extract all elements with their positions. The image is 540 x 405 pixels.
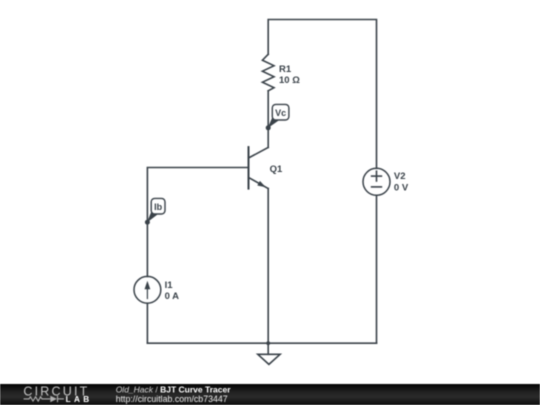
wire left rail <box>147 168 248 277</box>
svg-text:Q1: Q1 <box>270 164 283 175</box>
resistor R1 <box>262 54 274 91</box>
current source I1 <box>134 276 161 303</box>
logo resistor-diode line <box>24 396 64 403</box>
wire right rail lower <box>376 195 378 343</box>
svg-text:0 A: 0 A <box>165 291 180 302</box>
node flag Vc <box>266 104 289 130</box>
svg-text:Vc: Vc <box>275 108 286 118</box>
svg-text:V2: V2 <box>394 171 406 182</box>
node junction dot <box>266 341 270 345</box>
voltage source V2 <box>363 168 390 195</box>
wire collector lead <box>267 91 269 148</box>
svg-text:10 Ω: 10 Ω <box>279 75 300 86</box>
wire bottom rail <box>147 342 376 344</box>
svg-text:R1: R1 <box>279 64 292 75</box>
svg-text:http://circuitlab.com/cb73447: http://circuitlab.com/cb73447 <box>116 394 228 404</box>
wire I1 bottom lead <box>146 303 148 343</box>
wire emitter lead <box>267 189 269 344</box>
node flag Ib <box>145 198 165 224</box>
transistor Q1 <box>249 147 269 189</box>
wire top rail <box>268 20 376 169</box>
svg-text:LAB: LAB <box>66 395 93 404</box>
svg-text:Ib: Ib <box>154 202 163 212</box>
svg-text:I1: I1 <box>165 280 174 291</box>
ground <box>258 343 280 364</box>
svg-text:0 V: 0 V <box>394 182 409 193</box>
